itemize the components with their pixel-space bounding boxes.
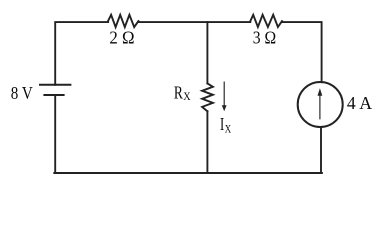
wire middle branch upper bbox=[206, 22, 208, 83]
wire middle branch lower bbox=[206, 111, 208, 173]
svg-text:I: I bbox=[220, 114, 224, 134]
wire right below source bbox=[320, 127, 322, 173]
wire top-left segment bbox=[55, 22, 108, 85]
resistor R 3ohm zigzag bbox=[250, 15, 282, 27]
wire top-right segment bbox=[282, 22, 322, 82]
svg-text:4 A: 4 A bbox=[347, 93, 372, 113]
svg-text:R: R bbox=[174, 83, 183, 103]
wire top-middle segment bbox=[138, 21, 250, 23]
current source I1 circle bbox=[298, 82, 343, 127]
svg-text:X: X bbox=[225, 121, 232, 135]
battery V1 top plate bbox=[40, 84, 70, 86]
svg-text:X: X bbox=[183, 89, 191, 103]
resistor R 2ohm zigzag bbox=[108, 15, 138, 27]
wire bottom rail bbox=[54, 172, 322, 174]
current source I1 arrowhead bbox=[318, 88, 323, 95]
svg-text:8 V: 8 V bbox=[11, 83, 33, 103]
wire left below battery bbox=[54, 95, 56, 173]
svg-text:2 Ω: 2 Ω bbox=[109, 28, 134, 48]
current Ix arrowhead bbox=[222, 105, 227, 111]
svg-text:3 Ω: 3 Ω bbox=[253, 28, 276, 48]
current source I1 arrow shaft bbox=[319, 95, 321, 119]
resistor Rx zigzag bbox=[202, 83, 213, 111]
current Ix arrow shaft bbox=[223, 82, 225, 106]
battery V1 bottom plate bbox=[44, 94, 63, 96]
